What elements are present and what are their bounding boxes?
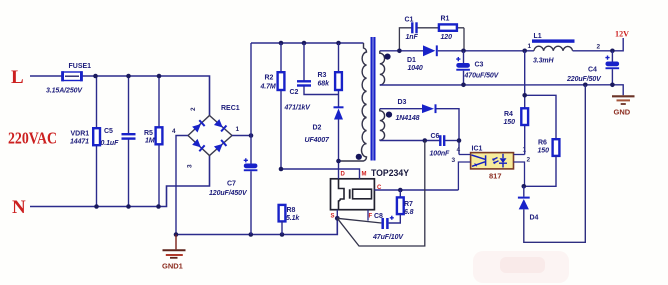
svg-text:TOP234Y: TOP234Y: [371, 168, 410, 179]
junction dot DC plus: [249, 133, 254, 138]
optocoupler IC1: [471, 153, 514, 169]
svg-text:3.3mH: 3.3mH: [533, 58, 555, 65]
capacitor C8: [381, 218, 384, 229]
wire S to C8: [337, 218, 381, 223]
transformer bias phase dot: [386, 112, 392, 118]
svg-text:L: L: [11, 67, 24, 88]
wire C pin line: [374, 189, 458, 191]
inductor L1: [532, 39, 575, 42]
svg-text:R1: R1: [441, 16, 450, 23]
svg-text:150: 150: [504, 119, 516, 126]
wire C2 column: [303, 43, 305, 81]
svg-text:D4: D4: [530, 215, 539, 222]
svg-text:3: 3: [452, 157, 456, 164]
wire D3 to opto pin4: [437, 109, 460, 155]
transformer secondary winding top: [380, 51, 385, 85]
svg-text:C6: C6: [431, 133, 440, 140]
svg-text:14471: 14471: [70, 139, 89, 146]
svg-text:2: 2: [597, 44, 601, 51]
opto pin1 stub: [514, 154, 525, 156]
diode D2: [334, 106, 344, 119]
zener D4: [518, 197, 530, 210]
svg-text:C1: C1: [405, 17, 414, 24]
svg-text:C5: C5: [104, 128, 113, 135]
opto pin3 stub: [458, 162, 470, 190]
svg-text:470uF/50V: 470uF/50V: [464, 73, 500, 80]
svg-text:817: 817: [489, 172, 502, 181]
svg-text:C3: C3: [475, 62, 484, 69]
svg-text:6.8: 6.8: [404, 209, 414, 216]
wire N rail: [30, 156, 210, 207]
wire C6 line: [380, 140, 440, 142]
wire R6 feed: [525, 95, 556, 139]
varistor VDR1: [93, 128, 100, 145]
resistor R6: [553, 139, 560, 156]
bridge diode top-left: [192, 119, 205, 132]
junction dots N rail: [94, 204, 161, 209]
resistor R8: [279, 205, 286, 222]
opto phototransistor: [472, 155, 486, 166]
resistor R1: [439, 24, 457, 30]
wire secondary ground rail: [380, 84, 613, 86]
S pin node: [336, 210, 338, 219]
wire R5 column: [158, 76, 160, 207]
svg-text:FUSE1: FUSE1: [69, 63, 92, 70]
wire clamp top rail: [251, 42, 364, 44]
svg-text:R2: R2: [265, 75, 274, 82]
ground GND1: [163, 235, 186, 258]
svg-text:R5: R5: [144, 130, 153, 137]
svg-text:C2: C2: [290, 89, 299, 96]
transformer secondary phase dot: [384, 54, 390, 60]
transformer bias winding: [380, 109, 385, 141]
bridge diode top-right: [214, 119, 227, 132]
svg-text:4.7M: 4.7M: [260, 84, 276, 91]
svg-text:R4: R4: [504, 111, 513, 118]
wire R3 D2 column: [338, 43, 340, 72]
junction dots bottom rail: [174, 232, 285, 237]
svg-text:R7: R7: [404, 201, 413, 208]
TOP234Y mosfet interior: [339, 179, 345, 210]
svg-text:150: 150: [538, 148, 550, 155]
opto LED: [493, 154, 508, 168]
wire L rail: [30, 76, 210, 116]
capacitor C1: [411, 22, 413, 33]
svg-text:68k: 68k: [318, 81, 331, 88]
svg-text:GND1: GND1: [162, 262, 183, 271]
svg-text:1N4148: 1N4148: [396, 115, 420, 122]
resistor R3: [335, 72, 342, 90]
svg-text:220VAC: 220VAC: [8, 129, 57, 148]
wire primary bottom to D pin: [338, 161, 340, 179]
wire secondary top to D1: [380, 50, 423, 52]
bridge rectifier REC1 diamond: [188, 116, 232, 156]
svg-text:471/1kV: 471/1kV: [284, 105, 312, 112]
wire R6 bottom: [524, 156, 556, 186]
junction dots L rail: [93, 74, 161, 79]
diode D1: [423, 45, 438, 56]
svg-text:4: 4: [172, 128, 176, 135]
capacitor C7: [244, 158, 258, 171]
svg-text:C: C: [377, 185, 382, 191]
svg-text:REC1: REC1: [221, 105, 240, 112]
svg-text:1: 1: [236, 126, 240, 133]
capacitor C6: [439, 135, 441, 146]
svg-text:D3: D3: [398, 99, 407, 106]
svg-text:C7: C7: [227, 181, 236, 188]
resistor R2: [278, 72, 285, 90]
svg-text:220uF/50V: 220uF/50V: [566, 76, 602, 83]
capacitor C3: [456, 57, 470, 71]
svg-text:0.1uF: 0.1uF: [101, 140, 120, 147]
fuse FUSE1: [61, 71, 83, 81]
capacitor C4: [605, 56, 619, 70]
svg-text:47uF/10V: 47uF/10V: [372, 234, 404, 241]
wire R4 column: [524, 51, 526, 109]
svg-text:3: 3: [187, 164, 194, 168]
svg-text:1040: 1040: [408, 65, 423, 72]
opto pin2 stub: [514, 162, 525, 186]
svg-text:N: N: [12, 197, 26, 218]
svg-text:1M: 1M: [145, 138, 155, 145]
svg-text:D2: D2: [313, 125, 322, 132]
diode D3: [422, 104, 437, 113]
capacitor C2: [297, 80, 311, 82]
transformer T1 primary winding: [339, 43, 367, 161]
resistor R5: [156, 127, 163, 144]
bridge diode bottom-right: [214, 139, 227, 152]
wire primary bottom rail: [176, 218, 337, 234]
svg-text:2: 2: [527, 157, 531, 164]
svg-text:IC1: IC1: [472, 146, 483, 153]
svg-text:UF4007: UF4007: [305, 137, 331, 144]
wire bridge plus to C7: [232, 135, 251, 137]
wire bridge minus to bottom rail: [176, 136, 188, 235]
svg-text:100nF: 100nF: [430, 151, 451, 158]
wire bias winding to D3: [380, 108, 422, 110]
svg-text:1nF: 1nF: [406, 34, 419, 41]
svg-text:120uF/450V: 120uF/450V: [209, 190, 248, 197]
wire secondary output rail: [438, 50, 534, 52]
F pin stub: [367, 210, 369, 221]
svg-text:12V: 12V: [615, 29, 630, 39]
junction dots secondary top rail: [397, 49, 527, 54]
transformer primary phase dot: [356, 154, 362, 160]
svg-text:4: 4: [457, 147, 461, 154]
opto pin4 stub: [459, 154, 471, 156]
bridge diode bottom-left: [192, 139, 205, 152]
svg-text:VDR1: VDR1: [71, 131, 90, 138]
svg-text:L1: L1: [534, 33, 542, 40]
svg-text:D1: D1: [407, 57, 416, 64]
svg-text:R6: R6: [538, 140, 547, 147]
wire D4 loop to ground rail: [523, 186, 525, 196]
svg-text:M: M: [362, 172, 367, 178]
IC TOP234Y block: [331, 179, 375, 210]
snubber loop wire C1 R1: [399, 28, 411, 51]
svg-text:R3: R3: [318, 72, 327, 79]
svg-text:120: 120: [441, 34, 453, 41]
transformer core: [371, 37, 373, 161]
watermark smudge: [473, 251, 569, 283]
capacitor C5: [122, 133, 136, 135]
ground GND secondary: [612, 96, 635, 104]
wire S diagonal return: [337, 141, 425, 247]
resistor R4: [521, 108, 528, 125]
wire M pin line to R2 R8: [281, 169, 360, 179]
svg-text:R8: R8: [287, 207, 296, 214]
wire R2 column: [280, 43, 282, 72]
wire VDR1 column: [96, 76, 98, 207]
svg-text:3.15A/250V: 3.15A/250V: [46, 88, 83, 95]
wire C7 column: [250, 43, 252, 164]
svg-text:GND: GND: [614, 108, 631, 117]
svg-text:C4: C4: [588, 67, 597, 74]
svg-text:S: S: [331, 214, 335, 220]
svg-text:F: F: [369, 214, 373, 220]
svg-text:2: 2: [190, 107, 197, 111]
svg-text:5.1k: 5.1k: [286, 215, 300, 222]
wire L1 to 12V: [573, 38, 624, 51]
junction dots clamp rail: [279, 41, 341, 46]
resistor R7: [399, 190, 401, 197]
svg-text:D: D: [341, 172, 346, 178]
wire C5 column: [128, 76, 130, 134]
svg-text:1: 1: [528, 43, 532, 50]
